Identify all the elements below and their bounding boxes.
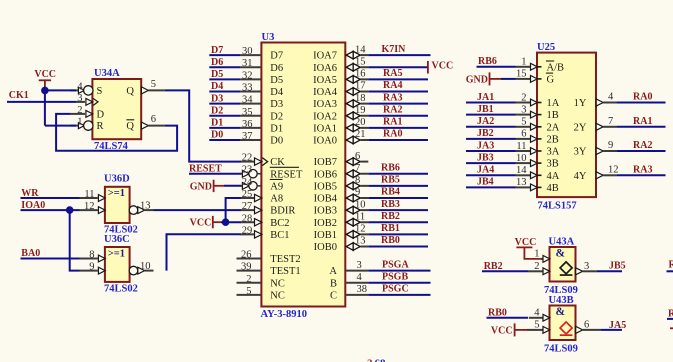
U3 pin 27 BDIR bbox=[240, 201, 295, 217]
U3 pin 33 D4 bbox=[240, 82, 283, 98]
svg-text:5: 5 bbox=[534, 320, 539, 331]
U3 pin 15 IOA6 bbox=[313, 56, 368, 73]
svg-text:JA2: JA2 bbox=[477, 116, 494, 127]
power port VCC at BC2 bbox=[190, 216, 221, 229]
net label BA0 bbox=[21, 248, 40, 259]
svg-text:RA2: RA2 bbox=[383, 104, 402, 115]
svg-text:D2: D2 bbox=[211, 105, 223, 116]
U3 pin 29 BC1 bbox=[240, 225, 289, 241]
partial net label right edge 2 bbox=[667, 308, 673, 328]
svg-text:9: 9 bbox=[608, 140, 613, 151]
U25 pin 10 3B bbox=[516, 153, 559, 170]
net label D3 bbox=[211, 93, 223, 104]
svg-text:GND: GND bbox=[190, 181, 212, 192]
svg-text:3Y: 3Y bbox=[574, 147, 587, 158]
svg-text:PSGA: PSGA bbox=[382, 259, 409, 270]
net label RA4 bbox=[383, 80, 402, 91]
svg-text:IOB1: IOB1 bbox=[314, 230, 337, 241]
svg-text:RA0: RA0 bbox=[633, 92, 652, 103]
net label RA5 bbox=[383, 68, 402, 79]
svg-text:B: B bbox=[330, 278, 337, 289]
svg-text:RB0: RB0 bbox=[381, 235, 400, 246]
net label RB1 bbox=[381, 223, 400, 234]
wire net WR bbox=[21, 197, 80, 199]
wire net RA0 bbox=[368, 139, 428, 141]
net label RA0 bbox=[633, 92, 652, 103]
net label JB3 bbox=[477, 152, 494, 163]
U3 pin 16 IOA5 bbox=[313, 69, 368, 86]
svg-text:GND: GND bbox=[466, 74, 488, 85]
svg-text:NC: NC bbox=[270, 278, 285, 289]
net label JA3 bbox=[477, 140, 494, 151]
U3 pin 24 A9 bbox=[240, 177, 283, 193]
svg-text:RB2: RB2 bbox=[381, 211, 400, 222]
svg-text:37: 37 bbox=[242, 131, 253, 142]
wire VCC to BC2 and A8 bbox=[221, 198, 241, 222]
svg-text:VCC: VCC bbox=[190, 218, 212, 229]
power port VCC at U43A bbox=[515, 237, 537, 248]
svg-text:33: 33 bbox=[242, 82, 253, 93]
wire net RA4 bbox=[368, 90, 428, 92]
svg-text:27: 27 bbox=[242, 201, 253, 212]
U25 pin 7 2Y bbox=[574, 116, 617, 134]
svg-text:3: 3 bbox=[521, 104, 526, 115]
part value 74LS02 U36D bbox=[104, 225, 138, 236]
svg-text:38: 38 bbox=[357, 284, 368, 295]
svg-text:23: 23 bbox=[242, 165, 253, 176]
U36D pin 12 input bbox=[80, 201, 106, 213]
svg-text:RB4: RB4 bbox=[381, 187, 400, 198]
U3 pin 26 TEST2 bbox=[237, 250, 301, 266]
svg-text:D0: D0 bbox=[211, 130, 223, 141]
U3 pin 18 IOA3 bbox=[313, 93, 368, 110]
wire net JB4 bbox=[466, 186, 516, 188]
designator U34A bbox=[94, 68, 120, 79]
svg-text:4: 4 bbox=[357, 272, 363, 283]
svg-text:IOA4: IOA4 bbox=[313, 87, 338, 98]
svg-text:4: 4 bbox=[534, 308, 540, 319]
svg-text:RESET: RESET bbox=[270, 169, 303, 180]
svg-text:1: 1 bbox=[521, 57, 526, 68]
U25 pin 1 A/B bbox=[516, 57, 565, 74]
svg-text:IOB4: IOB4 bbox=[314, 194, 338, 205]
wire net RA2 bbox=[617, 150, 666, 152]
wire Qbar feedback to D bbox=[56, 114, 177, 151]
svg-text:RA4: RA4 bbox=[383, 80, 402, 91]
svg-text:8: 8 bbox=[89, 250, 94, 261]
svg-text:IOA5: IOA5 bbox=[313, 75, 337, 86]
wire GND to U25 pin 15 bbox=[501, 78, 516, 80]
wire net D4 bbox=[209, 90, 240, 92]
svg-text:U36C: U36C bbox=[104, 234, 130, 245]
svg-text:JB1: JB1 bbox=[477, 104, 494, 115]
svg-text:IOA6: IOA6 bbox=[313, 63, 337, 74]
part value AY-3-8910 bbox=[261, 309, 307, 320]
U25 pin 5 2A bbox=[516, 117, 560, 134]
svg-text:22: 22 bbox=[242, 153, 253, 164]
net label D1 bbox=[211, 118, 223, 129]
designator U36C bbox=[104, 234, 130, 245]
svg-text:12: 12 bbox=[608, 164, 619, 175]
U3 pin 12 IOB1 bbox=[314, 224, 369, 241]
svg-text:1: 1 bbox=[534, 249, 539, 260]
wire net RA5 bbox=[368, 78, 428, 80]
net label RA1 bbox=[633, 116, 652, 127]
svg-text:JB4: JB4 bbox=[477, 177, 494, 188]
U3 pin 20 IOA1 bbox=[313, 117, 368, 134]
svg-text:19: 19 bbox=[355, 105, 366, 116]
U43B pin 6 output bbox=[576, 319, 601, 333]
U25 pin 9 3Y bbox=[574, 140, 617, 158]
svg-text:RB1: RB1 bbox=[381, 223, 400, 234]
U36C pin 10 output bbox=[129, 261, 153, 275]
svg-text:5: 5 bbox=[246, 286, 251, 297]
svg-text:&: & bbox=[556, 248, 566, 260]
svg-text:RB6: RB6 bbox=[381, 162, 400, 173]
svg-text:BDIR: BDIR bbox=[270, 206, 295, 217]
U3 pin 39 TEST1 bbox=[237, 262, 301, 278]
partial designator bottom bbox=[367, 358, 386, 362]
U3 pin 6 IOB7 bbox=[314, 151, 369, 168]
power port VCC at IOA6 bbox=[428, 60, 453, 73]
designator U25 bbox=[537, 42, 555, 53]
U3 pin 2 NC bbox=[237, 274, 285, 290]
part value 74LS02 U36C bbox=[104, 283, 138, 294]
svg-text:IOA1: IOA1 bbox=[313, 123, 337, 134]
svg-text:Q: Q bbox=[126, 86, 134, 97]
svg-text:17: 17 bbox=[355, 81, 366, 92]
U3 pin 22 CK bbox=[240, 153, 285, 169]
net label RB3 bbox=[381, 199, 400, 210]
U36D pin 11 input bbox=[80, 189, 106, 201]
U43A pin 2 input bbox=[528, 261, 550, 275]
svg-text:2: 2 bbox=[521, 92, 526, 103]
svg-text:BC1: BC1 bbox=[270, 230, 289, 241]
net label RB5 bbox=[381, 175, 400, 186]
wire net RB1 bbox=[368, 233, 428, 235]
net label JA1 bbox=[477, 92, 494, 103]
wire net JA4 bbox=[466, 174, 516, 176]
svg-text:2A: 2A bbox=[547, 122, 560, 133]
svg-text:7: 7 bbox=[355, 163, 360, 174]
svg-text:3: 3 bbox=[584, 261, 589, 272]
svg-text:74LS02: 74LS02 bbox=[104, 283, 138, 294]
svg-text:RB6: RB6 bbox=[478, 56, 497, 67]
U3 pin 30 D7 bbox=[240, 46, 283, 62]
wire net RB6 bbox=[368, 173, 428, 175]
svg-text:RB3: RB3 bbox=[381, 199, 400, 210]
net label JB5 bbox=[609, 260, 626, 271]
svg-text:18: 18 bbox=[355, 93, 366, 104]
U34A pin 5 Q output bbox=[126, 79, 164, 97]
svg-text:6: 6 bbox=[521, 129, 526, 140]
svg-text:3A: 3A bbox=[547, 147, 560, 158]
wire net D1 bbox=[209, 127, 240, 129]
wire net CK1 bbox=[7, 101, 76, 103]
wire net JB1 bbox=[466, 114, 516, 116]
svg-text:D1: D1 bbox=[211, 118, 223, 129]
svg-text:RB5: RB5 bbox=[381, 175, 400, 186]
svg-text:RA1: RA1 bbox=[383, 117, 402, 128]
svg-text:AY-3-8910: AY-3-8910 bbox=[261, 309, 307, 320]
junction at BC2 bbox=[222, 218, 230, 226]
wire net D2 bbox=[209, 115, 240, 117]
net label RB0 bbox=[488, 308, 507, 319]
svg-text:3: 3 bbox=[77, 93, 82, 104]
part value 74LS74 bbox=[94, 141, 129, 152]
U3 pin 13 IOB0 bbox=[314, 236, 369, 253]
svg-text:13: 13 bbox=[516, 177, 527, 188]
wire net JB2 bbox=[466, 138, 516, 140]
IC U34A 74LS74 body bbox=[92, 79, 141, 139]
svg-text:2Y: 2Y bbox=[574, 122, 587, 133]
net label RB2 bbox=[484, 261, 503, 272]
svg-text:>=1: >=1 bbox=[108, 188, 125, 199]
designator U43B bbox=[549, 295, 574, 306]
wire IOA6 to VCC bbox=[368, 66, 427, 68]
wire net RA1 bbox=[617, 126, 666, 128]
svg-text:IOB3: IOB3 bbox=[314, 206, 337, 217]
svg-text:36: 36 bbox=[242, 119, 253, 130]
U34A pin 2 D input bbox=[70, 105, 105, 121]
svg-text:D5: D5 bbox=[211, 69, 223, 80]
svg-text:RB: RB bbox=[668, 308, 673, 319]
svg-text:U3: U3 bbox=[262, 32, 275, 43]
svg-text:D1: D1 bbox=[270, 123, 283, 134]
net label RB0 bbox=[381, 235, 400, 246]
svg-text:35: 35 bbox=[242, 107, 253, 118]
wire net JA5 bbox=[601, 329, 622, 331]
junction at IOA0 bbox=[66, 206, 74, 214]
IC U25 74LS157 body bbox=[537, 53, 596, 198]
wire BDIR from U36D out bbox=[154, 209, 241, 211]
svg-text:JA3: JA3 bbox=[477, 140, 494, 151]
U34A pin 1 R reset bbox=[70, 117, 104, 133]
U25 pin 2 1A bbox=[516, 92, 560, 109]
svg-text:U36D: U36D bbox=[104, 174, 130, 185]
svg-text:K7IN: K7IN bbox=[382, 44, 407, 55]
U34A pin 3 clock bbox=[76, 93, 98, 106]
U3 pin 17 IOA4 bbox=[313, 81, 368, 98]
svg-text:RA5: RA5 bbox=[383, 68, 402, 79]
svg-text:8: 8 bbox=[355, 175, 360, 186]
net label WR bbox=[21, 188, 39, 199]
svg-text:6: 6 bbox=[584, 319, 589, 330]
svg-text:14: 14 bbox=[516, 165, 527, 176]
U36C pin 9 input bbox=[80, 262, 106, 274]
U36C pin 8 input bbox=[80, 250, 106, 262]
wire net RB0 bbox=[487, 317, 529, 319]
svg-text:A: A bbox=[329, 266, 337, 277]
svg-text:A8: A8 bbox=[270, 194, 283, 205]
U34A pin 6 Qbar output bbox=[126, 114, 164, 132]
svg-text:RB: RB bbox=[669, 260, 673, 271]
U3 pin 25 A8 bbox=[240, 189, 283, 205]
svg-text:IOA2: IOA2 bbox=[313, 111, 337, 122]
net label PSGA bbox=[382, 259, 409, 270]
svg-text:JB5: JB5 bbox=[609, 260, 626, 271]
wire net JA3 bbox=[466, 150, 516, 152]
U3 pin 36 D1 bbox=[240, 119, 283, 135]
wire net RESET bbox=[189, 173, 241, 175]
U3 pin 19 IOA2 bbox=[313, 105, 368, 122]
svg-text:Q: Q bbox=[126, 121, 134, 132]
U25 pin 4 1Y bbox=[574, 92, 617, 110]
U36D pin 13 output bbox=[129, 200, 153, 214]
wire VCC to S and R bbox=[45, 90, 76, 125]
wire net RB6 bbox=[477, 66, 516, 68]
wire net D5 bbox=[209, 78, 240, 80]
net label RA1 bbox=[383, 117, 402, 128]
svg-text:32: 32 bbox=[242, 70, 253, 81]
svg-text:24: 24 bbox=[242, 177, 253, 188]
wire net RB2 bbox=[482, 270, 528, 272]
net label CK1 bbox=[9, 90, 29, 101]
U25 pin 3 1B bbox=[516, 104, 559, 121]
svg-text:12: 12 bbox=[355, 224, 366, 235]
svg-text:4: 4 bbox=[608, 92, 614, 103]
net label RB2 bbox=[381, 211, 400, 222]
wire net D6 bbox=[209, 66, 240, 68]
svg-text:15: 15 bbox=[355, 56, 366, 67]
svg-text:R: R bbox=[97, 121, 104, 132]
AND gate U43B body bbox=[550, 306, 576, 341]
net label JA2 bbox=[477, 116, 494, 127]
svg-text:6: 6 bbox=[151, 114, 156, 125]
svg-text:2: 2 bbox=[367, 358, 373, 362]
svg-text:9: 9 bbox=[355, 187, 360, 198]
svg-text:11: 11 bbox=[355, 211, 365, 222]
svg-text:G: G bbox=[547, 75, 555, 86]
svg-text:C: C bbox=[330, 291, 337, 302]
svg-text:10: 10 bbox=[355, 199, 366, 210]
svg-text:9: 9 bbox=[89, 262, 94, 273]
svg-text:1A: 1A bbox=[547, 98, 560, 109]
part value 74LS09 U43B bbox=[544, 344, 578, 355]
U3 pin 9 IOB4 bbox=[314, 187, 369, 204]
partial net label right edge 1 bbox=[667, 260, 673, 272]
svg-text:U34A: U34A bbox=[94, 68, 120, 79]
svg-text:IOB0: IOB0 bbox=[314, 242, 337, 253]
U25 pin 13 4B bbox=[516, 177, 559, 194]
svg-text:68: 68 bbox=[375, 358, 387, 362]
svg-text:IOA7: IOA7 bbox=[313, 51, 337, 62]
svg-text:12: 12 bbox=[84, 201, 95, 212]
U3 pin 11 IOB2 bbox=[314, 211, 369, 228]
svg-text:&: & bbox=[556, 306, 566, 318]
U3 pin 31 D6 bbox=[240, 58, 283, 74]
net label RB6 bbox=[381, 162, 400, 173]
U43A pin 3 output bbox=[576, 261, 597, 275]
wire net D0 bbox=[209, 139, 240, 141]
net label JB1 bbox=[477, 104, 494, 115]
wire net RB5 bbox=[368, 185, 428, 187]
svg-text:D0: D0 bbox=[270, 136, 283, 147]
svg-text:RA3: RA3 bbox=[383, 92, 402, 103]
net label JB2 bbox=[477, 128, 494, 139]
svg-text:21: 21 bbox=[355, 129, 366, 140]
svg-text:1: 1 bbox=[77, 117, 82, 128]
svg-text:4A: 4A bbox=[547, 171, 560, 182]
svg-text:16: 16 bbox=[355, 69, 366, 80]
wire net PSGC bbox=[368, 294, 430, 296]
svg-text:RA0: RA0 bbox=[383, 129, 402, 140]
AND gate U43A body bbox=[550, 247, 576, 282]
wire net RB2 bbox=[368, 221, 428, 223]
svg-text:IOA3: IOA3 bbox=[313, 99, 337, 110]
wire net RA0 bbox=[617, 102, 666, 104]
svg-text:TEST2: TEST2 bbox=[270, 254, 300, 265]
net label K7IN bbox=[382, 44, 407, 55]
U3 pin 14 IOA7 bbox=[313, 44, 368, 61]
svg-text:15: 15 bbox=[516, 69, 527, 80]
U3 pin 34 D3 bbox=[240, 95, 283, 111]
net label PSGC bbox=[382, 284, 409, 295]
net label D0 bbox=[211, 130, 223, 141]
svg-text:6: 6 bbox=[355, 151, 360, 162]
svg-text:IOB7: IOB7 bbox=[314, 157, 337, 168]
designator U3 bbox=[262, 32, 275, 43]
designator U36D bbox=[104, 174, 130, 185]
wire net K7IN bbox=[368, 54, 430, 56]
svg-text:JB2: JB2 bbox=[477, 128, 494, 139]
net label IOA0 bbox=[21, 200, 45, 211]
net label D2 bbox=[211, 105, 223, 116]
net label RA2 bbox=[383, 104, 402, 115]
U25 pin 11 3A bbox=[516, 141, 560, 158]
svg-text:D6: D6 bbox=[270, 63, 283, 74]
svg-text:JA4: JA4 bbox=[477, 165, 494, 176]
svg-text:2: 2 bbox=[534, 261, 539, 272]
svg-text:4B: 4B bbox=[547, 183, 559, 194]
wire net JA1 bbox=[466, 102, 516, 104]
NOR gate U36D body bbox=[105, 187, 130, 223]
svg-text:D3: D3 bbox=[270, 99, 283, 110]
svg-text:2B: 2B bbox=[547, 135, 559, 146]
svg-text:1B: 1B bbox=[547, 110, 559, 121]
net label RA3 bbox=[383, 92, 402, 103]
svg-text:1Y: 1Y bbox=[574, 98, 587, 109]
svg-text:D: D bbox=[97, 110, 105, 121]
U25 pin 12 4Y bbox=[574, 164, 619, 182]
svg-text:29: 29 bbox=[242, 225, 253, 236]
power port GND at A9 bbox=[190, 180, 224, 193]
svg-text:IOA0: IOA0 bbox=[313, 136, 337, 147]
svg-text:D2: D2 bbox=[270, 111, 283, 122]
svg-text:5: 5 bbox=[521, 117, 526, 128]
U34A pin 4 S preset bbox=[70, 81, 103, 97]
svg-text:RA3: RA3 bbox=[633, 164, 652, 175]
svg-text:34: 34 bbox=[242, 95, 253, 106]
wire net D7 bbox=[209, 54, 240, 56]
svg-text:D4: D4 bbox=[270, 87, 284, 98]
svg-text:D7: D7 bbox=[211, 45, 223, 56]
svg-text:RA2: RA2 bbox=[633, 140, 652, 151]
wire BC1 from U36C out bbox=[167, 234, 241, 270]
net label D7 bbox=[211, 45, 223, 56]
part value 74LS09 U43A bbox=[544, 285, 578, 296]
U3 pin 8 IOB5 bbox=[314, 175, 369, 192]
power port GND at U25 bbox=[466, 72, 501, 85]
wire GND to A9 bbox=[224, 185, 241, 187]
wire net RA2 bbox=[368, 115, 428, 117]
svg-text:NC: NC bbox=[270, 290, 285, 301]
svg-text:BC2: BC2 bbox=[270, 218, 289, 229]
junction at VCC U34A bbox=[41, 87, 49, 95]
net label RA3 bbox=[633, 164, 652, 175]
net label D6 bbox=[211, 57, 223, 68]
svg-text:3B: 3B bbox=[547, 159, 559, 170]
